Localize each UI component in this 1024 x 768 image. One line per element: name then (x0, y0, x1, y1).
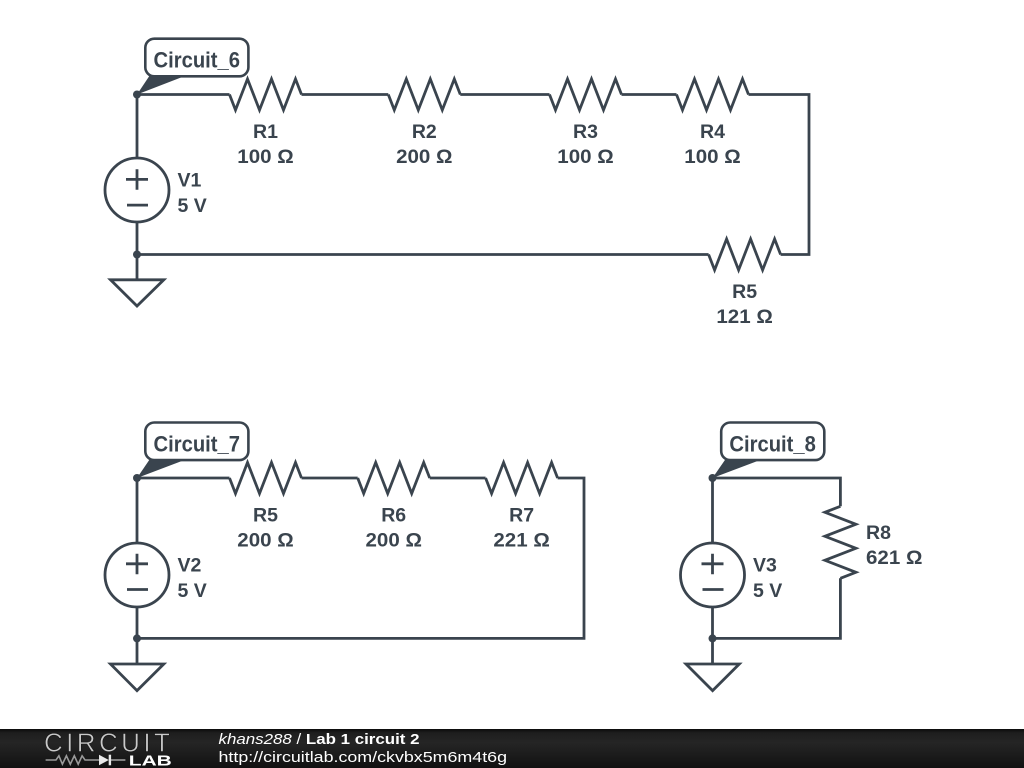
svg-text:R8: R8 (866, 522, 891, 544)
svg-text:V1: V1 (178, 170, 202, 192)
svg-text:R5: R5 (253, 505, 278, 527)
svg-text:R2: R2 (412, 121, 437, 143)
svg-text:221 Ω: 221 Ω (493, 530, 549, 552)
svg-text:100 Ω: 100 Ω (684, 146, 740, 168)
svg-text:R1: R1 (253, 121, 278, 143)
svg-text:R4: R4 (700, 121, 725, 143)
svg-text:R3: R3 (573, 121, 598, 143)
svg-text:5 V: 5 V (178, 195, 207, 217)
svg-text:R6: R6 (381, 505, 406, 527)
svg-text:khans288 / Lab 1 circuit 2: khans288 / Lab 1 circuit 2 (219, 731, 420, 748)
svg-text:5 V: 5 V (753, 580, 782, 602)
svg-text:121 Ω: 121 Ω (716, 306, 772, 328)
svg-text:200 Ω: 200 Ω (366, 530, 422, 552)
svg-text:R7: R7 (509, 505, 534, 527)
svg-text:100 Ω: 100 Ω (237, 146, 293, 168)
svg-text:5 V: 5 V (178, 580, 207, 602)
svg-text:V3: V3 (753, 555, 777, 577)
svg-text:200 Ω: 200 Ω (237, 530, 293, 552)
svg-text:R5: R5 (732, 281, 757, 303)
svg-text:http://circuitlab.com/ckvbx5m6: http://circuitlab.com/ckvbx5m6m4t6g (219, 749, 508, 766)
svg-text:V2: V2 (178, 555, 202, 577)
svg-text:Circuit_6: Circuit_6 (154, 48, 241, 73)
svg-text:621 Ω: 621 Ω (866, 547, 922, 569)
svg-text:200 Ω: 200 Ω (396, 146, 452, 168)
svg-text:Circuit_7: Circuit_7 (154, 432, 241, 457)
svg-text:LAB: LAB (129, 753, 172, 768)
svg-text:Circuit_8: Circuit_8 (729, 432, 816, 457)
svg-text:100 Ω: 100 Ω (557, 146, 613, 168)
